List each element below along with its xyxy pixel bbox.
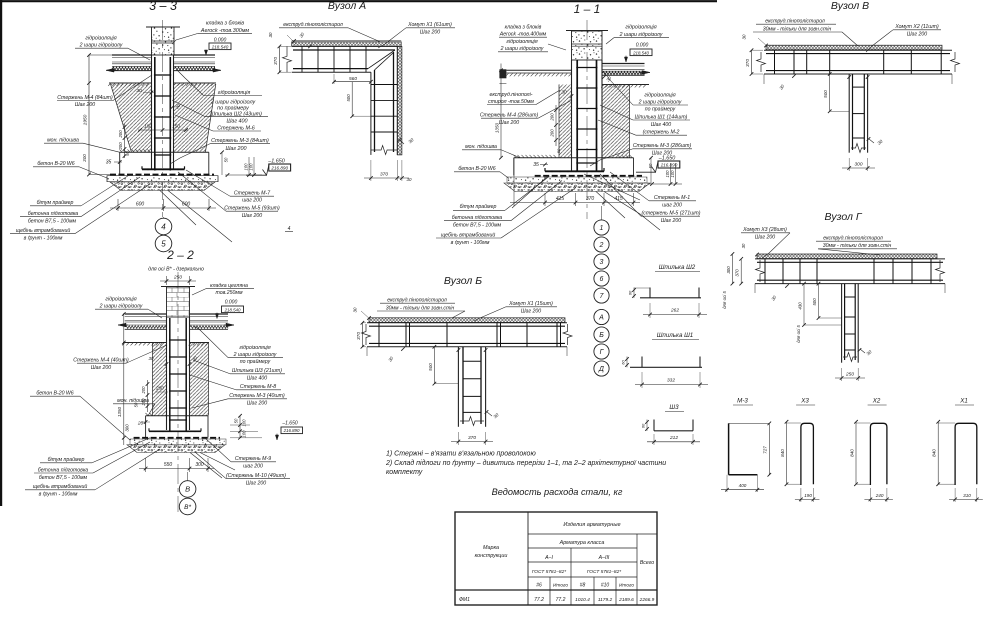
svg-text:Изделия арматурные: Изделия арматурные <box>563 522 620 528</box>
svg-text:77.2: 77.2 <box>534 597 544 603</box>
svg-text:Aerock -тов.300мм: Aerock -тов.300мм <box>200 28 249 34</box>
svg-text:Шаг 200: Шаг 200 <box>907 32 927 38</box>
svg-text:Стержень М-3 (40шт): Стержень М-3 (40шт) <box>229 393 285 399</box>
svg-text:370: 370 <box>380 172 388 178</box>
svg-text:Шаг 200: Шаг 200 <box>246 481 266 487</box>
svg-text:бетон В-20 W6: бетон В-20 W6 <box>458 166 495 172</box>
svg-text:100: 100 <box>249 163 254 171</box>
svg-text:Хомут Х1 (15шт): Хомут Х1 (15шт) <box>508 301 553 307</box>
svg-text:щебінь втрамбований: щебінь втрамбований <box>16 227 71 234</box>
svg-text:Вузол А: Вузол А <box>328 0 366 12</box>
svg-text:Всего: Всего <box>640 560 654 566</box>
svg-text:1350: 1350 <box>117 406 122 417</box>
svg-text:50: 50 <box>234 418 239 423</box>
svg-text:1950: 1950 <box>83 114 89 125</box>
svg-text:М-3: М-3 <box>737 398 748 405</box>
svg-text:А–III: А–III <box>598 555 610 561</box>
svg-text:300: 300 <box>125 424 130 432</box>
svg-text:200: 200 <box>118 142 123 151</box>
svg-text:2 шари гідроізолу: 2 шари гідроізолу <box>79 43 123 49</box>
svg-text:гідроізоляція: гідроізоляція <box>85 36 116 42</box>
svg-text:100: 100 <box>670 170 675 178</box>
svg-text:бітум праймер: бітум праймер <box>460 203 497 210</box>
svg-text:екструд.пінополістирол: екструд.пінополістирол <box>823 236 883 242</box>
svg-text:Шпилька Ш2: Шпилька Ш2 <box>659 264 696 271</box>
svg-text:560: 560 <box>349 76 357 82</box>
svg-text:щебінь втрамбований: щебінь втрамбований <box>441 231 496 238</box>
svg-text:по праймеру: по праймеру <box>217 104 249 111</box>
svg-text:комплекту: комплекту <box>386 469 423 476</box>
svg-text:30мм - тільки для зовн.стін: 30мм - тільки для зовн.стін <box>823 243 892 249</box>
svg-text:370: 370 <box>273 57 279 65</box>
svg-text:Стержень М-7: Стержень М-7 <box>234 191 271 197</box>
svg-text:200: 200 <box>141 386 146 395</box>
svg-text:тов.250мм: тов.250мм <box>215 290 243 296</box>
svg-text:шаг 200: шаг 200 <box>242 198 262 204</box>
svg-text:кладка з блоків: кладка з блоків <box>505 25 542 31</box>
svg-text:212: 212 <box>669 435 678 441</box>
svg-text:Шпилька Ш1 (144шт): Шпилька Ш1 (144шт) <box>635 115 688 121</box>
svg-text:(Стержень М-10 (49шт): (Стержень М-10 (49шт) <box>226 473 286 479</box>
svg-text:Итого: Итого <box>619 583 634 589</box>
svg-text:Шаг 200: Шаг 200 <box>247 401 267 407</box>
svg-text:5: 5 <box>161 239 166 248</box>
svg-text:для осі В* - дзеркально: для осі В* - дзеркально <box>148 267 204 273</box>
svg-text:2 шари гідроізолу: 2 шари гідроізолу <box>500 46 544 52</box>
svg-text:Ш3: Ш3 <box>669 404 679 411</box>
svg-text:2 шари гідроізолу: 2 шари гідроізолу <box>99 304 143 310</box>
svg-text:30мм - тільки для зовн.стін: 30мм - тільки для зовн.стін <box>386 306 455 312</box>
svg-text:1010.4: 1010.4 <box>575 597 590 603</box>
svg-text:Стержень М-1: Стержень М-1 <box>654 195 690 201</box>
svg-text:840: 840 <box>849 449 854 457</box>
svg-text:по праймеру: по праймеру <box>645 106 676 113</box>
svg-text:для осі 5: для осі 5 <box>796 325 801 343</box>
svg-text:550: 550 <box>164 462 173 468</box>
svg-text:200: 200 <box>550 113 555 122</box>
svg-text:370: 370 <box>468 435 476 441</box>
svg-text:0.000: 0.000 <box>636 43 649 49</box>
svg-text:60: 60 <box>620 360 625 365</box>
svg-text:2 шари гідроізолу: 2 шари гідроізолу <box>233 352 277 358</box>
svg-text:727: 727 <box>763 446 768 454</box>
svg-text:бетонна підготовка: бетонна підготовка <box>38 468 88 474</box>
svg-text:гідроізоляція: гідроізоляція <box>625 25 656 31</box>
svg-text:50: 50 <box>648 163 653 168</box>
svg-text:100: 100 <box>243 163 248 171</box>
svg-text:Ведомость расхода стали, кг: Ведомость расхода стали, кг <box>492 487 623 497</box>
svg-text:1: 1 <box>600 225 604 232</box>
svg-text:240: 240 <box>875 493 884 498</box>
svg-text:300: 300 <box>726 266 731 274</box>
svg-text:30: 30 <box>352 307 357 312</box>
svg-text:840: 840 <box>780 449 785 457</box>
svg-text:конструкции: конструкции <box>475 553 508 559</box>
svg-text:Стержень М-4 (84шт): Стержень М-4 (84шт) <box>57 95 113 101</box>
svg-text:150: 150 <box>144 124 152 129</box>
svg-text:Aerock -тов.400мм: Aerock -тов.400мм <box>499 32 547 38</box>
svg-text:екструд.пінополістирол: екструд.пінополістирол <box>387 298 447 304</box>
svg-text:Стержень М-9: Стержень М-9 <box>235 456 271 462</box>
svg-text:30: 30 <box>741 243 746 248</box>
svg-text:3 – 3: 3 – 3 <box>149 0 177 13</box>
svg-text:гідроізоляція: гідроізоляція <box>218 90 251 96</box>
svg-text:Стержень М-3 (84шт): Стержень М-3 (84шт) <box>211 138 269 144</box>
svg-text:250: 250 <box>845 371 854 377</box>
svg-text:щебінь втрамбований: щебінь втрамбований <box>33 483 88 490</box>
svg-text:бетон В7,5 - 100мм: бетон В7,5 - 100мм <box>39 475 88 481</box>
svg-text:шаг 200: шаг 200 <box>662 203 682 209</box>
svg-text:в ґрунт - 100мм: в ґрунт - 100мм <box>39 491 78 498</box>
svg-text:екструд.пінополістирол: екструд.пінополістирол <box>765 19 825 25</box>
svg-text:Шаг 400: Шаг 400 <box>226 118 247 124</box>
svg-text:Стержень М-4 (286шт): Стержень М-4 (286шт) <box>480 113 539 119</box>
svg-text:Итого: Итого <box>553 583 568 589</box>
svg-text:стирол -тов.50мм: стирол -тов.50мм <box>488 99 534 105</box>
svg-text:415: 415 <box>556 196 565 202</box>
svg-text:мон. підошва: мон. підошва <box>465 144 497 150</box>
svg-text:332: 332 <box>667 378 675 384</box>
svg-text:мон. підошва: мон. підошва <box>47 138 79 144</box>
svg-text:50: 50 <box>556 148 561 153</box>
svg-text:бетонна підготовка: бетонна підготовка <box>452 215 502 221</box>
svg-text:А–I: А–I <box>544 555 553 561</box>
svg-text:2) Склад підлоги по ґрунту – д: 2) Склад підлоги по ґрунту – дивитись пе… <box>385 459 666 467</box>
svg-text:Арматура класса: Арматура класса <box>559 540 605 546</box>
svg-text:бетон В7,5 - 100мм: бетон В7,5 - 100мм <box>453 222 502 228</box>
svg-text:218.540: 218.540 <box>632 50 649 55</box>
svg-text:60: 60 <box>627 290 632 295</box>
svg-text:бітум праймер: бітум праймер <box>48 456 85 463</box>
svg-text:300: 300 <box>82 154 87 162</box>
svg-text:2: 2 <box>599 242 604 249</box>
svg-text:#10: #10 <box>601 583 610 589</box>
svg-text:2189.6: 2189.6 <box>618 597 634 603</box>
svg-text:Шаг 200: Шаг 200 <box>420 30 440 36</box>
svg-text:екструд.пінополі-: екструд.пінополі- <box>490 92 533 98</box>
svg-text:Стержень М-5 (93шт): Стержень М-5 (93шт) <box>224 206 280 212</box>
svg-text:в ґрунт - 100мм: в ґрунт - 100мм <box>24 234 63 241</box>
svg-text:Стержень М-3 (286шт): Стержень М-3 (286шт) <box>633 143 692 149</box>
svg-text:218.540: 218.540 <box>224 307 241 312</box>
svg-text:Вузол Б: Вузол Б <box>444 275 482 287</box>
svg-text:Стержень М-4 (40шт): Стержень М-4 (40шт) <box>73 358 129 364</box>
svg-text:370: 370 <box>586 196 595 202</box>
svg-text:Д: Д <box>598 366 604 373</box>
svg-text:по праймеру: по праймеру <box>240 358 271 365</box>
svg-text:Шаг 200: Шаг 200 <box>521 309 541 315</box>
svg-text:1179.2: 1179.2 <box>598 597 613 603</box>
svg-text:Шпилька Ш1: Шпилька Ш1 <box>657 332 694 339</box>
svg-text:262: 262 <box>670 308 679 314</box>
svg-text:бетонна підготовка: бетонна підготовка <box>28 211 78 217</box>
svg-text:гідроізоляція: гідроізоляція <box>506 39 537 45</box>
svg-text:35: 35 <box>106 160 112 166</box>
svg-text:Вузол Г: Вузол Г <box>824 211 862 223</box>
svg-text:–1.650: –1.650 <box>281 421 298 427</box>
svg-text:гідроізоляція: гідроізоляція <box>105 297 136 303</box>
svg-text:Стержень М-8: Стержень М-8 <box>240 384 276 390</box>
svg-text:2 шари гідроізолу: 2 шари гідроізолу <box>638 100 682 106</box>
svg-text:Шпилька Ш3 (21шт): Шпилька Ш3 (21шт) <box>232 368 282 374</box>
svg-text:1 – 1: 1 – 1 <box>574 2 601 16</box>
svg-text:Х1: Х1 <box>959 398 968 405</box>
svg-text:кладка цегляна: кладка цегляна <box>210 283 248 289</box>
svg-text:310: 310 <box>963 493 971 498</box>
svg-text:Б: Б <box>599 332 604 339</box>
svg-text:кладка з блоків: кладка з блоків <box>206 21 244 27</box>
svg-text:гідроізоляція: гідроізоляція <box>239 345 270 351</box>
svg-text:Хомут Х2 (11шт): Хомут Х2 (11шт) <box>894 24 939 30</box>
svg-text:370: 370 <box>745 59 751 67</box>
svg-text:840: 840 <box>932 449 937 457</box>
svg-text:6: 6 <box>600 276 604 283</box>
svg-text:Шаг 200: Шаг 200 <box>755 235 775 241</box>
svg-text:100: 100 <box>242 430 247 438</box>
svg-text:50: 50 <box>125 151 130 156</box>
svg-text:бетон В-20 W6: бетон В-20 W6 <box>37 161 74 167</box>
svg-text:бітум праймер: бітум праймер <box>37 199 74 206</box>
svg-text:1) Стержні – в'язати в'язально: 1) Стержні – в'язати в'язальною проволок… <box>386 450 536 458</box>
svg-text:30: 30 <box>136 88 142 94</box>
svg-text:Шаг 200: Шаг 200 <box>242 213 262 219</box>
svg-text:Шаг 400: Шаг 400 <box>651 122 671 128</box>
svg-text:Шаг 400: Шаг 400 <box>247 376 267 382</box>
svg-text:30мм - тільки для зовн.стін: 30мм - тільки для зовн.стін <box>763 27 832 33</box>
svg-text:500: 500 <box>823 90 828 98</box>
svg-text:30: 30 <box>149 356 154 361</box>
svg-text:2 шари гідроізолу: 2 шари гідроізолу <box>619 32 663 38</box>
svg-text:Х3: Х3 <box>800 398 809 405</box>
svg-text:А: А <box>598 315 604 322</box>
svg-text:2 – 2: 2 – 2 <box>166 248 194 262</box>
svg-text:370: 370 <box>356 332 362 340</box>
svg-text:3: 3 <box>600 259 604 266</box>
svg-text:200: 200 <box>550 129 555 138</box>
svg-text:50: 50 <box>224 157 229 162</box>
svg-text:400: 400 <box>739 483 747 488</box>
svg-text:екструд.пінополістирол: екструд.пінополістирол <box>283 22 343 28</box>
svg-text:500: 500 <box>428 363 433 371</box>
svg-text:ФМ1: ФМ1 <box>459 597 470 603</box>
svg-text:ГОСТ 5781–82*: ГОСТ 5781–82* <box>587 569 621 575</box>
svg-text:ГОСТ 5781–82*: ГОСТ 5781–82* <box>532 569 566 575</box>
svg-text:4: 4 <box>161 222 166 231</box>
svg-text:Хомут Х3 (28шт): Хомут Х3 (28шт) <box>742 227 787 233</box>
svg-text:Шаг 200: Шаг 200 <box>75 102 95 108</box>
svg-text:Хомут Х1 (61шт): Хомут Х1 (61шт) <box>407 22 452 28</box>
svg-text:190: 190 <box>804 493 812 498</box>
svg-text:гідроізоляція: гідроізоляція <box>644 93 675 99</box>
svg-text:бетон В-20 W6: бетон В-20 W6 <box>36 391 73 397</box>
svg-text:Вузол В: Вузол В <box>831 0 869 12</box>
svg-text:для осі 5: для осі 5 <box>722 291 727 309</box>
svg-text:216.890: 216.890 <box>283 428 300 433</box>
svg-text:В: В <box>185 485 190 494</box>
svg-text:Х2: Х2 <box>872 398 881 405</box>
svg-text:Марка: Марка <box>483 545 499 551</box>
svg-text:бетон В7,5 - 100мм: бетон В7,5 - 100мм <box>28 218 77 224</box>
svg-text:Шаг 200: Шаг 200 <box>91 365 111 371</box>
svg-text:250: 250 <box>173 275 182 281</box>
svg-text:(стержень М-5 (271шт): (стержень М-5 (271шт) <box>642 211 701 217</box>
svg-text:60: 60 <box>640 423 645 428</box>
svg-text:30: 30 <box>742 34 747 39</box>
svg-text:Шаг 200: Шаг 200 <box>499 120 519 126</box>
svg-text:Шаг 200: Шаг 200 <box>661 218 681 224</box>
svg-text:30: 30 <box>268 32 273 37</box>
svg-text:20: 20 <box>137 421 144 427</box>
svg-text:мон. підошва: мон. підошва <box>117 398 149 404</box>
svg-text:500: 500 <box>346 94 351 102</box>
svg-text:600: 600 <box>136 202 145 208</box>
svg-text:430: 430 <box>797 302 802 310</box>
svg-text:2 шари гідроізолу: 2 шари гідроізолу <box>210 99 256 105</box>
svg-text:Шаг 200: Шаг 200 <box>225 146 246 152</box>
svg-text:300: 300 <box>854 161 862 167</box>
svg-text:218.540: 218.540 <box>211 45 229 50</box>
svg-text:200: 200 <box>118 130 123 139</box>
svg-text:250: 250 <box>155 386 164 391</box>
svg-text:Стержень М-6: Стержень М-6 <box>217 126 255 132</box>
svg-text:30: 30 <box>407 177 412 182</box>
svg-text:в ґрунт - 100мм: в ґрунт - 100мм <box>451 239 490 246</box>
svg-text:100: 100 <box>665 170 670 178</box>
svg-text:шаг 200: шаг 200 <box>243 464 263 470</box>
svg-text:30: 30 <box>561 90 567 96</box>
svg-text:100: 100 <box>242 419 247 427</box>
svg-text:77.2: 77.2 <box>556 597 566 603</box>
svg-text:500: 500 <box>812 298 817 306</box>
svg-text:0.000: 0.000 <box>225 300 238 306</box>
svg-text:300: 300 <box>195 462 204 468</box>
svg-text:150: 150 <box>172 124 180 129</box>
svg-text:2266.9: 2266.9 <box>639 597 655 603</box>
svg-text:216.890: 216.890 <box>270 166 288 171</box>
svg-text:#8: #8 <box>580 583 586 589</box>
svg-text:370: 370 <box>735 269 740 277</box>
svg-text:(стержень М-2: (стержень М-2 <box>643 130 680 136</box>
svg-text:216.890: 216.890 <box>660 163 678 168</box>
svg-text:35: 35 <box>533 162 539 168</box>
svg-text:#6: #6 <box>536 583 542 589</box>
svg-text:В*: В* <box>184 504 191 511</box>
